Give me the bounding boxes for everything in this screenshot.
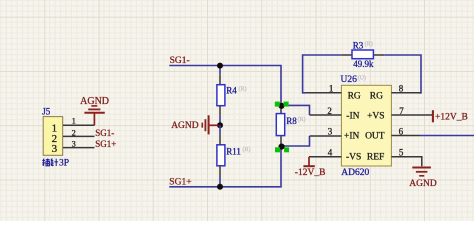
svg-text:7: 7 [399, 106, 404, 116]
svg-text:OUT: OUT [365, 132, 385, 142]
wire SG1- top run [169, 66, 281, 106]
svg-text:3P: 3P [59, 159, 69, 169]
svg-text:+VS: +VS [367, 111, 385, 121]
svg-text:-VS: -VS [346, 153, 361, 163]
svg-text:+IN: +IN [344, 132, 360, 142]
svg-text:J5: J5 [42, 106, 51, 116]
connector J5 pin 3 [63, 147, 95, 149]
resistor R4 bottom pin stub [219, 106, 221, 116]
node junction R8 bottom [279, 144, 285, 150]
svg-text:U26: U26 [341, 75, 358, 85]
resistor R3 [352, 50, 373, 59]
svg-text:RG: RG [370, 91, 383, 101]
resistor R11 bottom pin stub [219, 166, 221, 177]
svg-text:R4: R4 [226, 86, 237, 96]
wire R8 bottom to pin3 [281, 136, 310, 146]
resistor R8 pin stubs [280, 105, 282, 146]
resistor R3 right pin stub [373, 54, 384, 56]
svg-text:AGND: AGND [409, 179, 437, 189]
node junction SG1+ / R11 [217, 184, 223, 190]
svg-text:SG1+: SG1+ [95, 139, 116, 149]
svg-text:(U): (U) [358, 74, 366, 81]
svg-text:REF: REF [367, 153, 384, 163]
svg-text:SG1-: SG1- [170, 56, 190, 66]
svg-text:1: 1 [72, 117, 76, 126]
svg-text:2: 2 [327, 106, 332, 116]
connector J5 body [43, 117, 63, 156]
svg-text:AGND: AGND [171, 121, 199, 131]
svg-text:5: 5 [399, 147, 404, 157]
svg-text:RG: RG [348, 91, 361, 101]
connector J5 pin 1 [63, 124, 95, 126]
resistor R4 [217, 85, 225, 106]
svg-text:49.9k: 49.9k [353, 59, 374, 69]
svg-text:R8: R8 [286, 116, 297, 126]
svg-text:8: 8 [399, 84, 404, 94]
svg-text:AGND: AGND [80, 96, 109, 107]
ground AGND above J5 (pointing up) [84, 106, 104, 125]
node junction SG1- / R4 [217, 63, 223, 69]
svg-text:(R): (R) [243, 146, 251, 153]
label 插针3P below J5 [42, 159, 58, 167]
pin 8 [391, 92, 421, 94]
resistor R8 [276, 114, 284, 136]
resistor R11 top pin stub [219, 134, 221, 144]
connector J5 pin 2 [63, 135, 95, 137]
wire SG1+ bottom run [169, 146, 281, 187]
resistor R11 [217, 145, 225, 166]
svg-text:4: 4 [328, 147, 333, 157]
svg-text:+12V_B: +12V_B [435, 113, 468, 123]
svg-text:2: 2 [72, 128, 76, 137]
power +12V_B [432, 110, 434, 122]
wire R8 top to pin2 [281, 105, 310, 115]
power -12V_B [303, 157, 314, 166]
svg-text:SG1-: SG1- [95, 128, 114, 138]
wire AGND junction to R11 [219, 125, 221, 134]
svg-text:3: 3 [52, 143, 58, 155]
pin 4 [309, 156, 341, 158]
svg-text:R11: R11 [226, 147, 241, 157]
pin 5 [391, 157, 421, 167]
svg-text:3: 3 [328, 127, 333, 137]
node junction R8 top [278, 103, 284, 109]
wire divider chain top [219, 66, 221, 75]
pin 1 [306, 92, 341, 94]
wire R11 to SG1+ [219, 177, 221, 187]
wire RG gain loop [303, 55, 342, 93]
svg-text:3: 3 [72, 140, 76, 149]
pin 2 [310, 114, 342, 116]
wire R4 to AGND junction [219, 116, 221, 125]
pin 3 [310, 135, 342, 137]
resistor R4 top pin stub [219, 74, 221, 85]
node junction mid divider [217, 122, 223, 128]
pin hotspot markers (green) [275, 102, 289, 153]
ground AGND left (pointing left) [202, 115, 218, 134]
ground AGND bottom right [412, 168, 431, 176]
svg-text:1: 1 [329, 84, 334, 94]
svg-text:(R): (R) [298, 116, 306, 123]
svg-text:-12V_B: -12V_B [295, 168, 326, 178]
svg-text:(R): (R) [365, 41, 373, 48]
svg-text:6: 6 [399, 126, 404, 136]
wire OUT to edge [420, 135, 474, 137]
svg-text:-IN: -IN [346, 111, 359, 121]
svg-text:AD620: AD620 [341, 168, 369, 178]
pin 6 [391, 135, 420, 137]
svg-text:(R): (R) [239, 86, 247, 93]
resistor R3 left pin stub [341, 54, 352, 56]
pin 7 [391, 114, 432, 116]
op-amp U26 AD620 body [341, 85, 391, 166]
svg-text:SG1+: SG1+ [169, 178, 191, 188]
svg-text:R3: R3 [353, 40, 364, 50]
